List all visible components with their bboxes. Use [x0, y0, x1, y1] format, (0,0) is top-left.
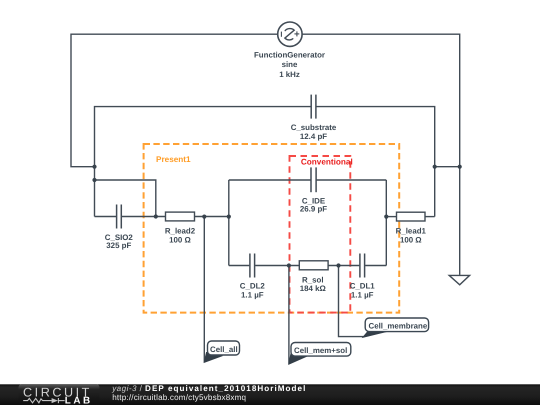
- capacitor C_IDE: [311, 167, 316, 192]
- wire: C_SIO2 bottom horizontal: [95, 216, 117, 218]
- wire: Cell_mem+sol drop: [288, 266, 290, 364]
- capacitor C_SIO2: [117, 205, 122, 229]
- wire: R_lead1 connections: [386, 216, 396, 218]
- function generator V1: [278, 22, 302, 46]
- label C_SIO2 325 pF: [105, 233, 134, 250]
- node junction right outer loop: [458, 165, 462, 169]
- svg-text:C_DL2: C_DL2: [240, 281, 266, 290]
- svg-text:C_DL1: C_DL1: [350, 281, 376, 290]
- svg-text:C_substrate: C_substrate: [291, 123, 337, 132]
- node junction R_sol right / Cell_membrane tap: [336, 263, 340, 267]
- wire: parallel loop over C_SIO2: [95, 180, 156, 217]
- wire: inner rect top with C_IDE gap: [229, 179, 311, 181]
- label C_IDE 26.9 pF: [300, 196, 327, 213]
- svg-text:yagi-3 / DEP equivalent_201018: yagi-3 / DEP equivalent_201018HoriModel: [111, 384, 306, 393]
- svg-text:1.1 µF: 1.1 µF: [241, 291, 264, 300]
- svg-text:http://circuitlab.com/cty5vbsb: http://circuitlab.com/cty5vbsbx8xmq: [112, 393, 246, 402]
- svg-text:100 Ω: 100 Ω: [169, 235, 191, 244]
- label C_substrate 12.4 pF: [291, 123, 337, 141]
- wire: R_lead2 right to inner rect: [195, 216, 229, 218]
- wire: inner rect left vertical: [228, 180, 230, 266]
- label C_DL1 1.1 uF: [350, 281, 376, 299]
- svg-text:1 kHz: 1 kHz: [279, 70, 300, 79]
- label C_DL2 1.1 uF: [240, 281, 266, 299]
- wire: inner rect bottom segments: [229, 265, 250, 267]
- svg-text:184 kΩ: 184 kΩ: [300, 284, 326, 293]
- footer bar: [0, 384, 540, 405]
- svg-text:325 pF: 325 pF: [106, 241, 131, 250]
- wire: outer loop top left segment: [71, 34, 278, 167]
- label FunctionGenerator sine 1 kHz: [254, 50, 325, 79]
- wire: Cell_all drop: [203, 217, 205, 362]
- ground: [449, 275, 469, 284]
- svg-text:1.1 µF: 1.1 µF: [351, 291, 374, 300]
- svg-text:Cell_all: Cell_all: [210, 345, 238, 354]
- node junction Cell_all tap: [202, 215, 206, 219]
- wire: C_substrate loop top right segment: [316, 107, 435, 217]
- capacitor C_DL2: [250, 254, 255, 278]
- node junction right substrate loop: [433, 165, 437, 169]
- capacitor C_substrate: [311, 95, 316, 119]
- capacitor C_DL1: [360, 254, 365, 278]
- label R_lead2 100 ohm: [165, 227, 196, 245]
- svg-text:Conventional: Conventional: [301, 157, 353, 166]
- wire: inner rect right vertical: [385, 180, 387, 266]
- svg-text:LAB: LAB: [65, 395, 93, 405]
- node junction C_SIO2 right: [154, 214, 158, 218]
- svg-text:FunctionGenerator: FunctionGenerator: [254, 50, 325, 59]
- flag Cell_membrane: [363, 318, 429, 337]
- label R_sol 184 kohm: [300, 275, 326, 293]
- node junction left outer/substrate loop: [92, 165, 96, 169]
- resistor R_lead1: [397, 212, 426, 221]
- svg-text:26.9 pF: 26.9 pF: [300, 205, 327, 214]
- label R_lead1 100 ohm: [396, 227, 427, 245]
- node junction left parallel loop top: [92, 178, 96, 182]
- svg-text:100 Ω: 100 Ω: [400, 235, 422, 244]
- svg-text:12.4 pF: 12.4 pF: [300, 132, 327, 141]
- resistor R_lead2: [166, 212, 195, 221]
- wire: connector between right verticals: [435, 166, 460, 168]
- flag Cell_mem+sol: [289, 343, 351, 365]
- node junction R_sol left / Cell_mem+sol tap: [287, 263, 291, 267]
- Conventional dashed region box: [290, 156, 353, 313]
- svg-text:Present1: Present1: [156, 155, 191, 164]
- flag Cell_all: [204, 341, 239, 362]
- node junction inner rect left: [227, 215, 231, 219]
- wire: Cell_membrane drop: [339, 266, 365, 337]
- Present1 dashed region box: [144, 144, 400, 313]
- svg-text:Cell_membrane: Cell_membrane: [369, 322, 428, 331]
- resistor R_sol: [299, 261, 328, 270]
- svg-text:sine: sine: [282, 60, 298, 69]
- wire: C_substrate loop top left segment: [95, 107, 312, 217]
- node junction inner rect right: [384, 215, 388, 219]
- logo squiggle: [23, 398, 64, 403]
- svg-text:Cell_mem+sol: Cell_mem+sol: [294, 346, 347, 355]
- wire: outer loop top right segment down to ground: [302, 34, 460, 275]
